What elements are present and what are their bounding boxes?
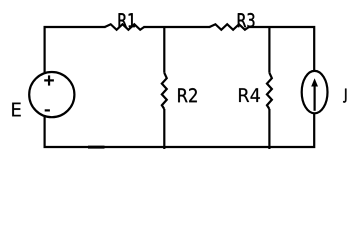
wire: middle node vertical lower (tail past bottom rail) (163, 109, 165, 149)
current source J arrow (311, 78, 318, 111)
voltage source minus sign (45, 109, 50, 111)
label R2 (178, 88, 197, 102)
wire: R4 branch vertical lower (tail past bottom rail) (268, 109, 270, 149)
resistor R4 (267, 73, 272, 109)
current source J ellipse (302, 71, 328, 113)
label J (343, 89, 346, 103)
label R4 (239, 88, 260, 102)
wire: bottom overlap thick segment (88, 146, 105, 149)
resistor R2 (162, 73, 167, 109)
voltage source plus sign (44, 75, 54, 85)
wire: middle node vertical upper (163, 26, 165, 73)
label R1 (119, 13, 135, 27)
wire: left vertical lower + bottom rail + right vertical lower (45, 113, 315, 147)
resistor R3 (210, 24, 249, 30)
wire: top rail after R3 + top-right corner + right vertical upper (248, 27, 314, 71)
label E (12, 103, 21, 117)
resistor R1 (105, 24, 144, 30)
wire: left vertical upper + top-left corner + top rail to R1 (45, 27, 106, 73)
voltage source E circle (29, 72, 74, 117)
wire: top rail between R1 and R3 (144, 26, 211, 28)
wire: R4 branch vertical upper (268, 26, 270, 73)
label R3 (238, 13, 255, 27)
